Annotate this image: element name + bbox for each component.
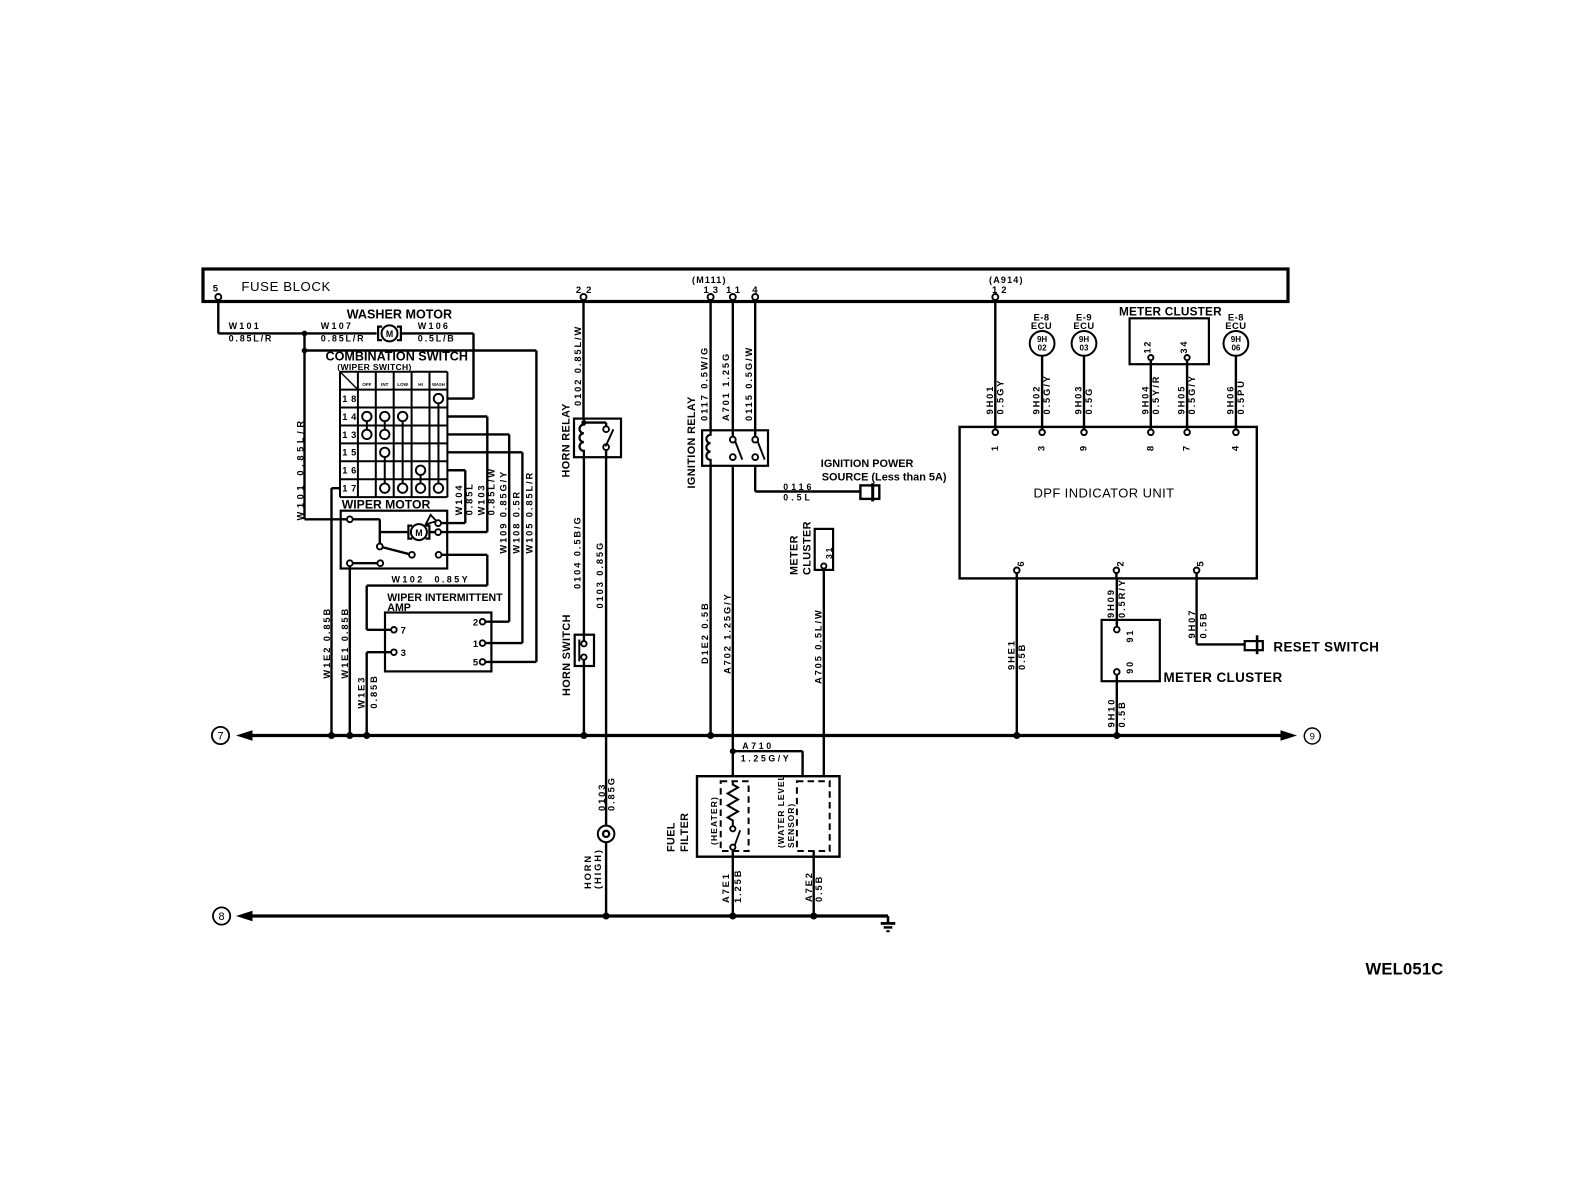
svg-text:9H05: 9H05: [1177, 385, 1187, 415]
svg-text:A701 1.25G: A701 1.25G: [721, 352, 731, 421]
connector M111 terminals 13 11 4: [692, 275, 758, 300]
DPF pin 1: [990, 430, 1001, 452]
svg-text:18: 18: [342, 394, 360, 404]
wire A7E2 0.5B sensor to ground bus 8: [804, 851, 824, 916]
svg-text:2: 2: [473, 618, 478, 629]
wire W1E2 0.85B row 17 to ground bus: [322, 488, 340, 735]
wiper switch row labels 18 14 13 15 16 17: [342, 394, 360, 494]
wire 0115 0.5G/W fuse 4 to ignition relay: [744, 300, 755, 437]
svg-text:9H04: 9H04: [1140, 385, 1150, 415]
horn relay label: [561, 403, 573, 478]
fuse block terminal 22: [576, 285, 597, 300]
svg-text:(M111): (M111): [692, 275, 727, 285]
wire W106 0.5L/B from washer motor to wiper switch row 18: [401, 321, 474, 399]
bus 8 line: [236, 911, 888, 922]
svg-text:M: M: [386, 329, 393, 339]
wire W105 0.85L/R label: [525, 471, 535, 554]
svg-text:METER CLUSTER: METER CLUSTER: [1164, 670, 1283, 685]
svg-text:0.5L/B: 0.5L/B: [418, 334, 456, 344]
svg-text:2: 2: [1116, 561, 1127, 566]
svg-text:HI: HI: [418, 382, 423, 387]
wiper motor label: [342, 498, 431, 512]
svg-text:WASH: WASH: [432, 382, 445, 387]
svg-text:(WATER LEVEL: (WATER LEVEL: [776, 774, 786, 848]
svg-text:(HEATER): (HEATER): [709, 796, 719, 845]
wire W104 0.85L row 16 to wiper motor: [441, 470, 475, 523]
ground bus node 7: [212, 727, 229, 744]
wiper switch contacts and links: [362, 394, 443, 493]
wiper switch column headers OFF INT LOW HI WASH: [362, 382, 444, 387]
wire 9H07 0.5B DPF pin 5 to reset switch: [1187, 578, 1245, 644]
svg-text:A705 0.5L/W: A705 0.5L/W: [814, 608, 824, 684]
svg-text:0117 0.5W/G: 0117 0.5W/G: [699, 346, 709, 421]
wiper motor park contacts: [347, 560, 383, 566]
svg-text:WASHER MOTOR: WASHER MOTOR: [347, 308, 452, 322]
wire 0103 0.85G horn relay to horn: [595, 450, 606, 826]
svg-text:0115 0.5G/W: 0115 0.5G/W: [744, 346, 754, 421]
meter cluster top label: [1119, 304, 1222, 318]
fuel filter heater dashed box: [721, 781, 749, 851]
svg-text:WIPER MOTOR: WIPER MOTOR: [342, 498, 431, 512]
DPF pin 7: [1182, 430, 1193, 452]
svg-text:HORN RELAY: HORN RELAY: [561, 403, 573, 478]
wire 0102 0.85L/W fuse 22 to horn relay: [573, 300, 583, 419]
meter cluster (fuel) box pin 31: [815, 529, 834, 570]
svg-text:A7E2: A7E2: [804, 871, 814, 902]
meter cluster top box terminals 12 34: [1130, 318, 1209, 364]
svg-text:METER: METER: [789, 535, 801, 575]
DPF pin 9: [1079, 430, 1090, 452]
fuel filter labels: [666, 813, 691, 852]
svg-text:0.85L/R: 0.85L/R: [229, 334, 274, 344]
wiper motor box: [341, 511, 448, 569]
wire to amp pin 3: [367, 651, 391, 653]
svg-text:A7E1: A7E1: [721, 872, 731, 903]
wiper motor M2: [380, 515, 437, 540]
svg-text:0.5G: 0.5G: [1084, 387, 1094, 415]
svg-text:1: 1: [473, 639, 479, 650]
ignition relay contact 2: [752, 437, 764, 460]
E-9 ECU connector 9H03: [1072, 311, 1097, 355]
wire W109 0.85G/Y row 13 to amp pin 2: [447, 434, 509, 621]
wire A705 0.5L/W meter cluster to water level sensor: [814, 569, 824, 777]
svg-text:16: 16: [342, 466, 360, 476]
E-8 ECU connector 9H06: [1224, 311, 1249, 355]
amp pin 5: [473, 658, 485, 669]
svg-text:0.85Y: 0.85Y: [435, 575, 471, 585]
svg-text:0.5R/Y: 0.5R/Y: [1117, 578, 1127, 618]
wire W105 branch from W101 junction: [305, 351, 537, 662]
svg-text:06: 06: [1231, 343, 1240, 352]
wire D1E2 0.5B ignition relay coil to ground bus: [700, 466, 710, 736]
svg-text:14: 14: [342, 412, 360, 422]
svg-text:9H06: 9H06: [1225, 385, 1235, 415]
svg-text:RESET SWITCH: RESET SWITCH: [1273, 639, 1379, 654]
svg-text:SOURCE (Less than 5A): SOURCE (Less than 5A): [822, 472, 947, 484]
connector A914 terminal 12: [989, 275, 1024, 300]
wire W102 0.85Y park switch to amp pin 7: [367, 555, 488, 630]
amp pin 7: [391, 626, 406, 637]
svg-text:0102 0.85L/W: 0102 0.85L/W: [573, 325, 583, 406]
meter cluster (fuel) label: [789, 521, 814, 575]
junction A702 to A710: [730, 748, 736, 754]
svg-text:DPF INDICATOR UNIT: DPF INDICATOR UNIT: [1033, 486, 1174, 501]
svg-text:0.85L: 0.85L: [465, 482, 475, 515]
svg-text:OFF: OFF: [362, 382, 371, 387]
svg-text:IGNITION RELAY: IGNITION RELAY: [686, 396, 698, 489]
fuel filter FL1 box: [697, 776, 840, 857]
horn relay coil: [580, 419, 587, 458]
svg-text:W1E3: W1E3: [356, 676, 366, 709]
amp pin 3: [391, 648, 406, 659]
svg-text:(A914): (A914): [989, 275, 1024, 285]
wiper switch grid: [340, 372, 447, 497]
wire 0104 0.5B/G horn relay to horn switch: [572, 457, 584, 635]
svg-text:8: 8: [1145, 446, 1156, 451]
svg-text:9H03: 9H03: [1074, 385, 1084, 415]
svg-text:9H09: 9H09: [1106, 588, 1116, 618]
DPF pin 3: [1037, 430, 1048, 452]
svg-text:17: 17: [342, 484, 360, 494]
wire 9H03 0.5G to DPF pin 9: [1074, 356, 1095, 430]
horn labels: [583, 776, 616, 889]
svg-text:0.5L: 0.5L: [783, 492, 813, 502]
amp pin 1: [473, 639, 485, 650]
svg-text:W101 0.85L/R: W101 0.85L/R: [296, 417, 306, 520]
meter cluster right box pins 91 90: [1102, 620, 1160, 681]
svg-text:W108 0.5R: W108 0.5R: [511, 490, 521, 554]
svg-text:5: 5: [1196, 561, 1207, 567]
svg-text:SENSOR): SENSOR): [786, 803, 796, 848]
wire W103 0.85L/W row 14 to wiper motor: [441, 417, 497, 533]
junction on W101 at washer line: [302, 331, 308, 337]
svg-text:METER CLUSTER: METER CLUSTER: [1119, 304, 1222, 318]
wire 9H04 0.5Y/R to DPF pin 8: [1140, 360, 1161, 429]
bus 8 junctions: [603, 913, 818, 920]
water level sensor dashed box: [797, 781, 830, 851]
ignition relay label: [686, 396, 698, 489]
svg-text:31: 31: [824, 546, 834, 559]
ground G1: [881, 916, 896, 931]
svg-text:0.85B: 0.85B: [369, 674, 379, 708]
svg-text:0116: 0116: [783, 482, 814, 492]
svg-text:W103: W103: [476, 484, 486, 516]
wiper motor brush terminal high: [435, 520, 441, 526]
ignition relay contact 1: [730, 437, 742, 460]
reset switch connector: [1245, 635, 1263, 654]
DPF pin 4: [1230, 430, 1241, 452]
svg-text:W1E2 0.85B: W1E2 0.85B: [322, 607, 332, 679]
wire horn switch to ground bus: [583, 660, 585, 736]
horn (high) B1: [598, 826, 615, 843]
svg-text:0.5GY: 0.5GY: [995, 379, 1005, 415]
svg-text:13: 13: [342, 430, 360, 440]
svg-text:(WIPER SWITCH): (WIPER SWITCH): [337, 362, 411, 372]
svg-text:LOW: LOW: [397, 382, 408, 387]
wire 9H01 0.5GY fuse A914-12 to DPF pin 1: [985, 300, 1006, 430]
svg-text:W107: W107: [321, 321, 353, 331]
ground bus node 8: [213, 907, 230, 924]
svg-text:5: 5: [473, 658, 479, 669]
svg-text:(HIGH): (HIGH): [593, 848, 603, 889]
DPF indicator unit U2 box: [960, 427, 1257, 579]
meter cluster right label: [1164, 670, 1283, 685]
svg-text:0.5B: 0.5B: [1017, 643, 1027, 670]
svg-text:HORN: HORN: [583, 854, 593, 889]
svg-text:9H02: 9H02: [1032, 385, 1042, 415]
wire 9HE1 0.5B DPF pin 6 to ground bus: [1006, 578, 1027, 735]
svg-text:02: 02: [1038, 343, 1047, 352]
wire 9H02 0.5G/Y to DPF pin 3: [1032, 356, 1053, 430]
svg-text:0104 0.5B/G: 0104 0.5B/G: [572, 515, 582, 589]
svg-text:W1E1 0.85B: W1E1 0.85B: [340, 607, 350, 679]
wire W107 0.85L/R label: [321, 321, 366, 344]
svg-text:03: 03: [1080, 343, 1089, 352]
svg-text:0.85L/R: 0.85L/R: [321, 334, 366, 344]
reset switch label: [1273, 639, 1379, 654]
wire A7E1 1.25B heater to ground bus 8: [721, 850, 743, 916]
wiper intermittent amp U1 box: [385, 613, 491, 672]
svg-text:9H10: 9H10: [1107, 698, 1117, 728]
svg-text:W101: W101: [229, 321, 261, 331]
wiper intermittent amp label: [387, 592, 503, 614]
svg-text:W109 0.85G/Y: W109 0.85G/Y: [498, 470, 508, 554]
horn switch label: [561, 614, 573, 696]
heater thermal switch: [730, 826, 740, 850]
svg-text:1.25G/Y: 1.25G/Y: [741, 754, 791, 764]
svg-text:8: 8: [219, 911, 225, 923]
svg-text:M: M: [415, 528, 422, 538]
heater resistor R1: [728, 781, 738, 826]
svg-text:W106: W106: [418, 321, 450, 331]
horn relay contacts: [603, 426, 613, 450]
wire W1E1 0.85B wiper motor to ground bus: [340, 566, 350, 735]
svg-text:4: 4: [1230, 445, 1241, 451]
svg-text:9: 9: [1310, 732, 1315, 743]
svg-text:CLUSTER: CLUSTER: [802, 521, 814, 575]
DPF pin 6: [1014, 561, 1027, 578]
bus 7 line: [236, 730, 1297, 741]
svg-text:91: 91: [1125, 629, 1135, 643]
wire 9H06 0.5PU to DPF pin 4: [1225, 356, 1246, 430]
wiper motor feed terminal: [347, 516, 380, 543]
svg-text:W104: W104: [454, 484, 464, 516]
svg-text:6: 6: [1016, 561, 1027, 566]
amp pin 2: [473, 618, 485, 629]
svg-text:A702 1.25G/Y: A702 1.25G/Y: [722, 592, 732, 674]
svg-text:W102: W102: [392, 575, 425, 585]
svg-text:W105 0.85L/R: W105 0.85L/R: [525, 471, 535, 554]
svg-text:15: 15: [342, 448, 360, 458]
svg-text:9H07: 9H07: [1187, 609, 1197, 639]
wire A701 1.25G fuse 11 to ignition relay: [721, 300, 733, 437]
wire W108 0.5R row 15 to amp pin 1: [447, 452, 522, 643]
fuse block: [203, 269, 1288, 302]
ignition power source label: [821, 458, 947, 484]
svg-text:0.5PU: 0.5PU: [1236, 379, 1246, 414]
svg-text:0.5Y/R: 0.5Y/R: [1151, 375, 1161, 415]
wire 9H05 0.5G/Y to DPF pin 7: [1177, 360, 1198, 429]
horn relay RY1 box: [574, 419, 621, 458]
DPF pin 2: [1114, 561, 1127, 578]
wiper motor brush terminal low: [429, 529, 441, 535]
wire W101 0.85L/R from fuse terminal 5: [218, 300, 376, 344]
svg-text:5: 5: [213, 284, 219, 295]
svg-text:ECU: ECU: [1031, 320, 1052, 331]
E-8 ECU connector 9H02: [1030, 311, 1055, 355]
svg-text:IGNITION POWER: IGNITION POWER: [821, 458, 914, 470]
svg-text:HORN SWITCH: HORN SWITCH: [561, 614, 573, 696]
svg-text:90: 90: [1125, 660, 1135, 674]
DPF pin 5: [1194, 561, 1207, 579]
svg-text:A710: A710: [742, 741, 773, 751]
svg-text:D1E2 0.5B: D1E2 0.5B: [700, 601, 710, 664]
water level sensor labels: [776, 774, 796, 848]
heater label: [709, 796, 719, 845]
svg-text:9: 9: [1079, 446, 1090, 451]
svg-text:9H01: 9H01: [985, 385, 995, 415]
ignition relay coil: [706, 430, 710, 466]
wiper motor park switch: [377, 544, 442, 558]
fuse block terminal 5: [213, 284, 222, 301]
svg-text:7: 7: [401, 626, 406, 637]
bus 7 junctions: [328, 732, 1120, 739]
svg-text:34: 34: [1179, 340, 1189, 354]
drawing number WEL051C: [1366, 960, 1444, 979]
svg-text:7: 7: [217, 731, 223, 743]
svg-text:0.85L/W: 0.85L/W: [487, 467, 497, 515]
ignition power source connector: [860, 483, 879, 501]
wire horn to ground bus 8: [605, 842, 607, 916]
svg-text:ECU: ECU: [1073, 320, 1094, 331]
svg-text:FUEL: FUEL: [666, 822, 678, 852]
ignition relay RY2 box: [702, 430, 768, 466]
svg-text:9HE1: 9HE1: [1006, 639, 1016, 670]
svg-text:0.5G/Y: 0.5G/Y: [1042, 374, 1052, 414]
wire 9H10 0.5B meter cluster 90 to ground bus: [1107, 675, 1128, 736]
svg-text:0.5B: 0.5B: [1198, 611, 1208, 638]
svg-text:FILTER: FILTER: [679, 813, 691, 852]
combination switch label: [326, 350, 468, 372]
svg-text:FUSE BLOCK: FUSE BLOCK: [241, 279, 331, 294]
svg-text:0103 0.85G: 0103 0.85G: [595, 541, 605, 609]
svg-text:0103: 0103: [597, 783, 607, 811]
svg-text:1: 1: [990, 445, 1001, 451]
svg-text:3: 3: [401, 648, 406, 659]
ground bus node 9: [1304, 728, 1320, 744]
wire 0117 0.5W/G fuse 13 to ignition relay coil: [699, 300, 710, 430]
svg-text:0.85G: 0.85G: [607, 776, 617, 811]
horn switch SW1: [575, 635, 594, 666]
svg-text:0.5B: 0.5B: [814, 875, 824, 902]
wire 0116 0.5L ignition relay to power source connector: [755, 466, 860, 503]
svg-text:WEL051C: WEL051C: [1366, 960, 1444, 979]
svg-text:12: 12: [1143, 340, 1153, 354]
svg-text:1.25B: 1.25B: [733, 869, 743, 903]
svg-text:0.5B: 0.5B: [1117, 700, 1127, 727]
svg-text:7: 7: [1182, 446, 1193, 451]
wire W101 vertical to wiper motor: [296, 333, 347, 520]
svg-text:0.5G/Y: 0.5G/Y: [1187, 374, 1197, 414]
wire A710 1.25G/Y to water level sensor: [733, 741, 803, 776]
washer motor label: [347, 308, 452, 322]
wire 9H09 0.5R/Y DPF pin 2 to meter cluster 91: [1106, 578, 1127, 627]
svg-text:ECU: ECU: [1225, 320, 1246, 331]
horn relay contact feed: [584, 423, 606, 427]
svg-text:3: 3: [1037, 446, 1048, 451]
washer motor M1: [378, 325, 401, 341]
wire A702 1.25G/Y ignition relay to fuel filter heater: [722, 466, 732, 776]
svg-text:INT: INT: [381, 382, 389, 387]
DPF pin 8: [1145, 430, 1156, 452]
wire W1E3 0.85B amp pin 3 to ground bus: [356, 652, 379, 735]
